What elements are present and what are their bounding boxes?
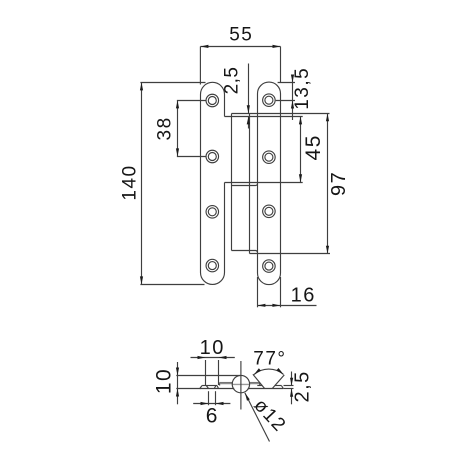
right leaf hole 1 — [263, 94, 276, 107]
dimension 38 — [155, 101, 207, 157]
svg-text:2,5: 2,5 — [291, 370, 313, 402]
bottom view: left countersink inner slants — [206, 386, 208, 389]
dimension 140 — [120, 83, 206, 285]
bottom view: bar top line left — [202, 385, 217, 387]
dimension 55 — [200, 25, 280, 85]
left leaf hole 3 — [206, 206, 219, 219]
svg-text:10: 10 — [152, 368, 175, 394]
knuckle circle (bottom view) — [232, 375, 249, 392]
dimension 6 — [193, 391, 230, 427]
right leaf hole 2 — [263, 151, 276, 164]
right leaf outline — [258, 82, 281, 285]
dimension 97 — [326, 114, 350, 254]
knuckle top line (ext for 13,5 and 97) — [232, 113, 330, 115]
right leaf hole 4 — [263, 260, 276, 273]
svg-text:140: 140 — [120, 164, 141, 200]
knuckle bottom line with fillet — [232, 250, 258, 252]
dimension 13,5 — [276, 67, 313, 120]
bottom view: leaf bar bottom line — [200, 388, 234, 390]
svg-text:55: 55 — [229, 25, 253, 46]
knuckle centerline — [240, 361, 242, 410]
dimension 45 — [299, 117, 325, 183]
bottom view: bar left tip chamfer — [200, 386, 202, 389]
bottom view: left flange band — [219, 383, 221, 386]
bottom view: left countersink right chamfer — [217, 386, 219, 389]
bottom view: bar right tip chamfer — [281, 386, 283, 389]
svg-text:2,5: 2,5 — [222, 67, 243, 95]
svg-text:38: 38 — [155, 116, 176, 140]
dimension 10 (left, height) — [152, 362, 240, 404]
svg-text:97: 97 — [328, 171, 350, 196]
mid step line (ext for 45 bottom) — [225, 182, 303, 184]
svg-text:77°: 77° — [253, 349, 286, 370]
knuckle left edge — [231, 114, 233, 251]
dimension diameter 12 leader — [245, 393, 290, 442]
bottom view: right flange band — [249, 382, 260, 384]
left leaf hole 1 — [206, 94, 219, 107]
svg-text:45: 45 — [302, 134, 325, 160]
left leaf hole 4 — [206, 259, 219, 272]
svg-text:16: 16 — [291, 284, 316, 306]
knuckle right edge / pin line — [249, 114, 251, 254]
right leaf hole 3 — [263, 205, 276, 218]
svg-text:10: 10 — [200, 337, 225, 359]
left leaf hole 2 — [206, 150, 219, 163]
lower knuckle top line with fillet — [232, 183, 258, 185]
dimension 77 degrees — [253, 349, 287, 389]
dimension 16 — [258, 277, 317, 307]
bottom view: bar top line right — [257, 385, 262, 387]
svg-text:6: 6 — [206, 405, 219, 428]
svg-text:13,5: 13,5 — [292, 67, 313, 110]
bottom view: bar line through knuckle — [233, 383, 250, 385]
dimension 10 (top, countersink) — [191, 337, 235, 385]
leaf cut top line (ext for 45 top) — [225, 116, 303, 118]
dimension 2,5 (right, thickness) — [284, 370, 314, 404]
dimension 2,5 (front) — [222, 64, 250, 129]
bottom step line (ext for 97 bottom) — [250, 253, 331, 255]
left leaf outline — [201, 82, 225, 284]
